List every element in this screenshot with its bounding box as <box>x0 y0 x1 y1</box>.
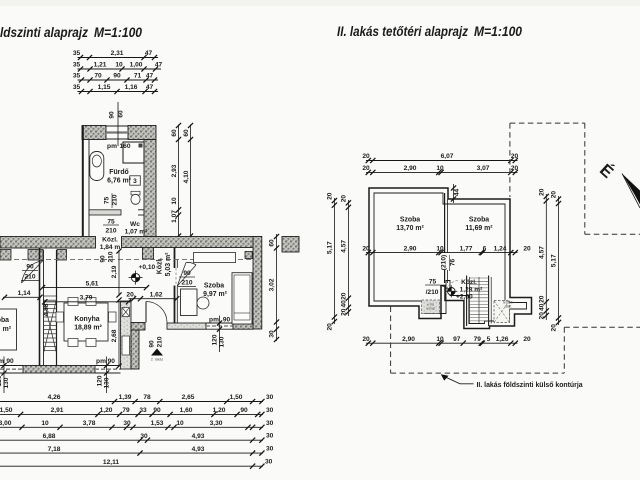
svg-text:76: 76 <box>450 259 457 267</box>
svg-text:210: 210 <box>108 251 115 262</box>
svg-text:1,60: 1,60 <box>180 407 193 414</box>
svg-text:130: 130 <box>103 377 110 388</box>
svg-text:40: 40 <box>538 303 545 311</box>
window pm90 at left edge bottom <box>0 365 23 367</box>
svg-text:Wc: Wc <box>130 221 140 228</box>
svg-text:2,93: 2,93 <box>171 164 178 177</box>
svg-text:71: 71 <box>134 73 142 80</box>
wall: main top wall left segment <box>0 237 96 249</box>
svg-text:4,57: 4,57 <box>340 240 347 253</box>
svg-text:Szoba: Szoba <box>469 217 489 224</box>
dim 2,19 vertical <box>118 250 120 296</box>
svg-text:2,90: 2,90 <box>404 165 417 172</box>
windowsill band middle bottom <box>167 323 206 329</box>
svg-text:20: 20 <box>511 153 519 160</box>
wall: bottom wall band left <box>23 366 95 374</box>
svg-text:12,11: 12,11 <box>103 459 119 466</box>
wall: bottom band right of window <box>233 322 253 329</box>
svg-text:10: 10 <box>436 245 444 252</box>
svg-text:30: 30 <box>265 459 273 466</box>
svg-text:Konyha: Konyha <box>74 316 99 323</box>
svg-text:47: 47 <box>145 50 153 57</box>
svg-text:210: 210 <box>157 336 164 347</box>
window pm90 szoba bottom <box>206 322 233 324</box>
entrance door leaf+arc <box>145 302 147 323</box>
svg-text:30: 30 <box>269 330 276 338</box>
svg-text:78: 78 <box>143 394 151 401</box>
svg-text:3,07: 3,07 <box>477 165 490 172</box>
dim 1,14 <box>3 296 41 298</box>
bed left cut room <box>0 309 17 350</box>
svg-text:47: 47 <box>146 73 154 80</box>
svg-text:1,14: 1,14 <box>18 290 31 297</box>
terrace hatched box right <box>494 301 510 323</box>
right side vertical dim 60 3,02 30 <box>276 234 278 341</box>
svg-text:20: 20 <box>551 324 558 332</box>
svg-text:alatt: alatt <box>505 305 512 309</box>
top-left dimension block row 3 <box>78 79 159 81</box>
svg-text:1,84 m: 1,84 m <box>100 244 121 251</box>
svg-text:90: 90 <box>223 317 231 324</box>
top-left dimension block row 4 <box>78 91 159 93</box>
bottom dims row 3 <box>0 426 263 428</box>
svg-text:Szoba: Szoba <box>204 283 224 290</box>
svg-text:1,07 m²: 1,07 m² <box>125 229 149 236</box>
svg-text:1,15: 1,15 <box>98 84 111 91</box>
svg-text:1,24: 1,24 <box>494 245 507 252</box>
svg-text:2,91: 2,91 <box>51 407 64 414</box>
svg-text:75: 75 <box>429 279 437 286</box>
right plan left vertical dim 5,17 <box>333 198 335 324</box>
window pm90 kitchen bottom <box>95 365 121 367</box>
svg-text:II. lakás földszinti külső kon: II. lakás földszinti külső kontúrja <box>477 382 583 389</box>
svg-text:4,26: 4,26 <box>48 394 61 401</box>
dim 3,79 / 20 / 1,62 <box>44 301 131 303</box>
wall: right outer wall <box>253 237 262 330</box>
washing machine <box>130 176 141 185</box>
svg-text:20: 20 <box>551 191 558 199</box>
svg-text:30: 30 <box>123 420 131 427</box>
top-left dimension block row 2 <box>78 68 162 70</box>
svg-text:20: 20 <box>538 312 545 320</box>
bottom dims row 2 <box>0 413 263 415</box>
dim 2,68 vertical <box>118 299 120 367</box>
svg-text:10: 10 <box>176 420 184 427</box>
svg-text:47: 47 <box>146 84 154 91</box>
svg-text:1,62: 1,62 <box>150 291 163 298</box>
svg-text:20: 20 <box>523 245 531 252</box>
svg-text:9,97 m²: 9,97 m² <box>203 291 227 298</box>
dashed line across hall/szoba <box>14 259 252 261</box>
svg-text:10: 10 <box>436 336 444 343</box>
right plan outer wall outline <box>369 188 532 329</box>
wall: pillar top right <box>282 237 299 253</box>
vertical dim right of protrusion (60 4,10) <box>190 125 192 237</box>
svg-text:+2,60: +2,60 <box>456 294 473 301</box>
svg-text:4,88: 4,88 <box>43 303 50 316</box>
svg-text:60: 60 <box>171 129 178 137</box>
svg-text:II. lakás tetőtéri alaprajz: II. lakás tetőtéri alaprajz <box>337 24 468 40</box>
svg-text:79: 79 <box>474 336 482 343</box>
kitchen table <box>64 303 108 341</box>
svg-text:10: 10 <box>171 197 178 205</box>
svg-text:20: 20 <box>538 295 545 303</box>
svg-text:10: 10 <box>115 62 123 69</box>
svg-text:1,07: 1,07 <box>171 210 178 223</box>
svg-text:20: 20 <box>340 308 347 316</box>
window pm160 in top wall <box>106 125 128 127</box>
right plan top dim row 1 (6,07) <box>366 160 518 162</box>
svg-text:5,17: 5,17 <box>326 241 333 254</box>
svg-text:20: 20 <box>326 192 333 200</box>
svg-text:130: 130 <box>219 336 226 347</box>
svg-text:30: 30 <box>266 420 274 427</box>
contour leader + label <box>442 376 474 384</box>
svg-text:90: 90 <box>26 264 34 271</box>
svg-text:5,61: 5,61 <box>86 280 99 287</box>
top-left dimension block row 1 <box>78 57 159 59</box>
svg-text:ldszinti alaprajz: ldszinti alaprajz <box>0 25 88 41</box>
wall: interior wall hall/szoba <box>174 248 176 269</box>
svg-text:3: 3 <box>133 178 137 185</box>
svg-text:4,57: 4,57 <box>538 246 545 259</box>
svg-text:6,07: 6,07 <box>441 153 454 160</box>
svg-text:13,70 m²: 13,70 m² <box>396 225 424 232</box>
svg-text:3,30: 3,30 <box>210 420 223 427</box>
svg-text:60: 60 <box>183 129 190 137</box>
right plan right vertical dim 5,17 <box>558 196 560 325</box>
svg-text:10: 10 <box>436 165 444 172</box>
svg-text:3,78: 3,78 <box>83 420 96 427</box>
svg-text:vonal: vonal <box>426 307 435 311</box>
door fan hall to szoba <box>177 265 196 286</box>
svg-text:35: 35 <box>73 62 81 69</box>
svg-text:20: 20 <box>362 245 370 252</box>
svg-text:20: 20 <box>362 336 370 343</box>
svg-text:2,19: 2,19 <box>111 265 118 278</box>
svg-text:Közl.: Közl. <box>461 279 477 286</box>
vertical dim right of protrusion (60 2,93 10 1,07) <box>178 125 180 237</box>
svg-text:20: 20 <box>326 323 333 331</box>
svg-text:+0,10: +0,10 <box>139 264 156 271</box>
svg-text:4,10: 4,10 <box>183 170 190 183</box>
right plan left vertical dim 4,57 <box>347 200 349 316</box>
svg-text:(210): (210) <box>441 255 448 270</box>
svg-text:90: 90 <box>100 255 107 263</box>
svg-text:11,69 m²: 11,69 m² <box>465 225 493 232</box>
svg-text:oba: oba <box>0 317 9 324</box>
svg-text:2,90: 2,90 <box>404 245 417 252</box>
svg-text:6,88: 6,88 <box>43 433 56 440</box>
kitchen counter strip <box>121 301 132 369</box>
svg-text:75: 75 <box>107 219 115 226</box>
svg-text:20: 20 <box>340 292 347 300</box>
svg-text:5: 5 <box>487 336 491 343</box>
svg-text:30: 30 <box>266 433 274 440</box>
svg-text:1,00: 1,00 <box>130 62 143 69</box>
svg-text:pm: pm <box>107 143 117 150</box>
svg-text:1,39: 1,39 <box>119 394 132 401</box>
balcony hatched box below notch <box>422 300 440 314</box>
svg-text:90: 90 <box>149 340 156 348</box>
svg-text:18,89 m²: 18,89 m² <box>74 325 102 332</box>
right plan bottom dim row <box>366 342 518 344</box>
partition wall between szoba rooms <box>444 193 446 253</box>
svg-text:90: 90 <box>6 358 14 365</box>
svg-text:60: 60 <box>269 239 276 247</box>
svg-text:97: 97 <box>453 336 461 343</box>
shower tray <box>123 142 144 163</box>
svg-text:/210: /210 <box>426 289 439 296</box>
svg-text:120: 120 <box>211 334 218 345</box>
dashed door arc 75/210 <box>446 281 459 294</box>
svg-text:pm: pm <box>96 358 106 365</box>
wall: protrusion right wall <box>144 140 156 237</box>
stair treads <box>469 277 488 279</box>
svg-text:6: 6 <box>483 245 487 252</box>
svg-text:47: 47 <box>155 62 163 69</box>
bottom dims row 1 <box>0 401 263 403</box>
svg-text:m: m <box>0 358 4 365</box>
wall: partition between Furdo and Wc <box>89 210 121 215</box>
svg-text:30: 30 <box>266 394 274 401</box>
svg-text:35: 35 <box>73 84 81 91</box>
svg-text:160: 160 <box>119 143 130 150</box>
svg-text:3,79: 3,79 <box>80 295 93 302</box>
svg-text:90: 90 <box>109 111 116 119</box>
svg-text:M=1:100: M=1:100 <box>474 24 522 40</box>
svg-text:35: 35 <box>73 50 81 57</box>
wall: protrusion top-left block <box>82 126 106 140</box>
svg-text:35: 35 <box>73 73 81 80</box>
entrance arrow 2.lakas <box>151 349 163 356</box>
svg-text:70: 70 <box>94 73 102 80</box>
bed in szoba <box>232 273 252 324</box>
svg-text:210: 210 <box>105 228 116 235</box>
wall: door jamb stubs below top wall <box>0 250 11 261</box>
dim line above protrusion with 90 / 60 <box>117 102 119 146</box>
svg-text:90: 90 <box>183 270 191 277</box>
svg-text:2,31: 2,31 <box>111 50 124 57</box>
svg-text:pm: pm <box>209 317 219 324</box>
bathtub <box>90 152 104 181</box>
svg-text:3,00: 3,00 <box>0 420 12 427</box>
wall: stub below protrusion right wall <box>142 248 153 260</box>
wall: pillar at szoba top right inside <box>245 252 252 259</box>
bottom dims row 4 <box>0 439 263 441</box>
svg-text:79: 79 <box>122 407 130 414</box>
svg-text:5,03 m²: 5,03 m² <box>165 252 172 276</box>
svg-text:33: 33 <box>139 407 147 414</box>
svg-text:1,50: 1,50 <box>0 407 13 414</box>
svg-text:Közl.: Közl. <box>102 237 118 244</box>
svg-text:Szoba: Szoba <box>400 217 420 224</box>
svg-text:2,90: 2,90 <box>402 336 415 343</box>
svg-text:2. lakás: 2. lakás <box>151 358 164 362</box>
svg-text:1,20: 1,20 <box>213 407 226 414</box>
svg-text:90: 90 <box>240 407 248 414</box>
svg-text:20: 20 <box>340 195 347 203</box>
svg-text:4,93: 4,93 <box>192 446 205 453</box>
svg-text:2,68: 2,68 <box>111 329 118 342</box>
svg-text:20,: 20, <box>126 291 135 298</box>
svg-text:Fürdő: Fürdő <box>109 169 129 176</box>
svg-text:75: 75 <box>104 197 111 205</box>
svg-text:210: 210 <box>24 274 35 281</box>
svg-text:20: 20 <box>511 165 519 172</box>
right plan top dim row 2 (2,90 10 3,07) <box>366 171 518 173</box>
svg-text:30: 30 <box>266 446 274 453</box>
svg-text:40: 40 <box>340 300 347 308</box>
svg-text:30: 30 <box>266 407 274 414</box>
svg-text:3,02: 3,02 <box>269 278 276 291</box>
right plan right vertical dim 4,57 <box>545 194 547 320</box>
svg-text:1,28 m²: 1,28 m² <box>460 287 484 294</box>
svg-text:1,16: 1,16 <box>125 84 138 91</box>
svg-text:2,65: 2,65 <box>182 394 195 401</box>
svg-text:20: 20 <box>362 165 370 172</box>
svg-text:10: 10 <box>41 420 49 427</box>
svg-text:210: 210 <box>112 194 119 205</box>
door arc from left room to hall <box>22 261 44 284</box>
wardrobe in szoba <box>194 253 236 263</box>
stair enclosure <box>466 276 468 327</box>
bottom dims row 5 <box>0 452 263 454</box>
svg-text:5,17: 5,17 <box>551 254 558 267</box>
svg-text:44: 44 <box>453 189 460 197</box>
svg-text:4,93: 4,93 <box>192 433 205 440</box>
svg-text:1,50: 1,50 <box>230 394 243 401</box>
svg-text:1,26: 1,26 <box>496 336 509 343</box>
svg-text:7,18: 7,18 <box>48 446 61 453</box>
svg-text:210: 210 <box>181 280 192 287</box>
svg-text:20: 20 <box>538 188 545 196</box>
svg-text:Közl.: Közl. <box>157 258 164 275</box>
svg-text:90: 90 <box>113 73 121 80</box>
dim 5,61 <box>42 287 148 289</box>
bottom dims row 6 <box>0 465 263 467</box>
svg-text:M=1:100: M=1:100 <box>94 25 142 41</box>
wall: protrusion left wall <box>82 126 84 237</box>
svg-text:130: 130 <box>3 377 10 388</box>
svg-text:20: 20 <box>362 153 370 160</box>
svg-text:m²: m² <box>3 326 12 333</box>
desk in szoba <box>181 289 198 316</box>
svg-text:1,77: 1,77 <box>460 245 473 252</box>
svg-text:1,20: 1,20 <box>100 407 113 414</box>
wall: protrusion top-right block <box>128 126 156 140</box>
dim 44 step <box>453 184 455 203</box>
chair <box>197 297 209 309</box>
right plan middle dim row <box>366 252 518 254</box>
wall: main top wall right segment <box>122 237 262 248</box>
stairs treads <box>44 295 57 297</box>
wall: L-wall at kitchen SE corner <box>131 323 145 331</box>
svg-text:1,21: 1,21 <box>94 62 107 69</box>
svg-text:30: 30 <box>140 433 148 440</box>
dashed contour of ground floor <box>510 122 585 124</box>
svg-text:20: 20 <box>523 336 531 343</box>
svg-text:90: 90 <box>153 407 161 414</box>
svg-text:6,76 m²: 6,76 m² <box>107 178 131 185</box>
svg-text:1,53: 1,53 <box>151 420 164 427</box>
wall: stair rails <box>39 248 41 366</box>
toilet in bathroom <box>131 191 140 195</box>
svg-text:60: 60 <box>118 110 125 118</box>
